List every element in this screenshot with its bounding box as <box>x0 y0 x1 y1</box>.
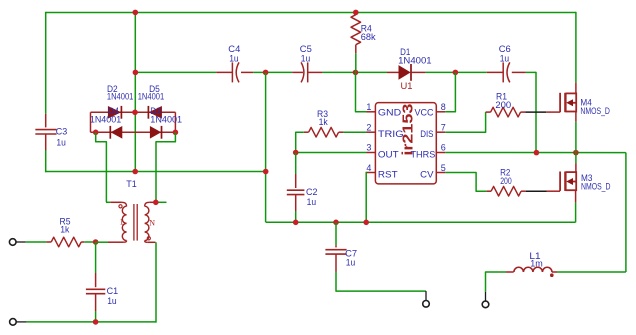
wire node down to C1 <box>95 242 97 273</box>
label pin number 4 <box>366 163 371 173</box>
wire pin1 GND branch <box>356 72 367 111</box>
resistor R5 lead right <box>81 241 84 243</box>
svg-text:RST: RST <box>378 169 398 180</box>
svg-text:GND: GND <box>378 108 401 119</box>
svg-text:1u: 1u <box>307 197 317 208</box>
wire pin8 VCC branch <box>445 72 455 111</box>
wire C7 node down <box>335 222 337 245</box>
label R5 value 1k <box>60 224 69 235</box>
wire pin7 DIS branch <box>445 112 485 132</box>
svg-text:T1: T1 <box>126 179 137 190</box>
svg-text:200: 200 <box>495 100 511 111</box>
label R1 <box>496 92 507 103</box>
terminal output left <box>423 301 430 308</box>
wire mid rail: C6 to corner <box>526 71 536 73</box>
pin 8 stub <box>436 111 445 113</box>
label pin number 2 <box>366 122 371 132</box>
label pin DIS <box>420 129 433 140</box>
svg-text:2: 2 <box>366 122 371 132</box>
svg-text:1: 1 <box>366 102 371 112</box>
node junction C1 / bottom rail <box>93 319 99 325</box>
pin 7 stub <box>436 131 445 133</box>
wire terminal to R5 <box>26 241 47 243</box>
wire top power rail <box>46 12 576 14</box>
wire node to T1 primary bottom <box>96 241 108 243</box>
label D3 <box>150 106 161 117</box>
svg-text:1k: 1k <box>60 224 69 235</box>
capacitor C2 lead bottom <box>295 194 297 211</box>
capacitor C4 lead left <box>216 71 232 73</box>
node junction bridge bottom left <box>93 130 99 136</box>
capacitor C2 <box>287 190 305 194</box>
capacitor C7 lead top <box>335 245 337 247</box>
transistor M4 gate pin black segment <box>525 111 546 113</box>
capacitor C5 <box>301 62 308 82</box>
wire mid-left horizontal net <box>45 171 266 173</box>
label R4 value 68k <box>361 32 376 43</box>
transformer T1 secondary bottom lead <box>147 241 155 243</box>
wire pin2 to R3 <box>343 131 366 133</box>
capacitor C3 lead bottom <box>45 134 47 150</box>
label R2 <box>500 167 510 178</box>
resistor R1 lead right <box>521 111 526 113</box>
transistor M4 <box>560 93 576 113</box>
wire lower rail <box>266 221 576 223</box>
svg-text:NMOS_D: NMOS_D <box>581 182 611 193</box>
terminal input top pin <box>16 241 26 243</box>
label ir2153 part number <box>399 104 416 156</box>
transformer T1 primary bottom lead <box>108 241 124 243</box>
resistor R1 <box>491 107 521 117</box>
wire vertical C4C5-junction to lower rail <box>265 72 267 222</box>
label C2 <box>306 187 318 198</box>
svg-text:1u: 1u <box>107 296 117 307</box>
label R2 value 200 <box>500 176 512 187</box>
capacitor C6 lead right <box>512 71 526 73</box>
resistor R3 lead left <box>304 131 309 133</box>
capacitor C6 lead left <box>487 71 503 73</box>
label C1 value 1u <box>107 296 117 307</box>
svg-text:1k: 1k <box>319 117 328 128</box>
label pin number 7 <box>441 122 446 132</box>
label C6 value 1u <box>500 53 510 64</box>
pin 3 stub <box>367 152 376 154</box>
capacitor C5 lead right <box>308 71 323 73</box>
svg-text:OUT: OUT <box>378 150 399 161</box>
label C4 <box>228 44 240 55</box>
node junction lower rail / C7 <box>333 220 339 226</box>
svg-text:1N4001: 1N4001 <box>150 114 182 125</box>
label R4 <box>361 23 372 34</box>
svg-text:U1: U1 <box>401 81 413 92</box>
pin 4 stub <box>367 172 376 174</box>
wire bridge left side <box>90 112 92 132</box>
wire mid rail: junction to C5 <box>266 71 293 73</box>
label pin number 3 <box>366 143 371 153</box>
op-amp U1 body (ir2153 box) <box>375 103 436 184</box>
inductor L1 <box>514 267 552 272</box>
wire bridge right output step <box>156 132 175 202</box>
label C4 value 1u <box>229 53 239 64</box>
transformer T1 core <box>134 204 137 241</box>
wire pin5 CV branch <box>445 173 486 192</box>
wire output drop to L1 <box>557 271 626 273</box>
capacitor C1 <box>86 289 105 293</box>
label pin CV <box>420 169 434 180</box>
svg-text:5: 5 <box>441 163 446 173</box>
diode D4 (bottom-left, pointing left) <box>110 126 122 139</box>
node junction output rail / half-bridge <box>573 150 579 156</box>
transistor M3 drain lead <box>575 153 577 173</box>
resistor R5 lead left <box>46 241 51 243</box>
svg-text:1: 1 <box>120 218 124 227</box>
transformer T1 secondary top lead <box>149 201 156 203</box>
svg-text:1N4001: 1N4001 <box>138 92 165 103</box>
label T1 <box>126 179 137 190</box>
label D2 <box>107 84 118 95</box>
resistor R1 lead left <box>486 111 491 113</box>
wire right drop to M4 drain <box>575 12 577 83</box>
resistor R4 lead bottom <box>355 45 357 53</box>
label L1 value 1m <box>530 259 543 270</box>
node junction mid-left net / C4C5 vertical <box>263 169 269 175</box>
label D2 value 1N4001 <box>107 92 133 103</box>
transistor M3 <box>560 171 576 191</box>
label D5 value 1N4001 <box>138 92 165 103</box>
transistor M3 source lead <box>575 190 577 202</box>
diode D1 lead right <box>411 71 425 73</box>
label R5 <box>60 216 71 227</box>
wire C1 to bottom rail <box>95 311 97 322</box>
svg-text:8: 8 <box>441 102 446 112</box>
terminal input top <box>9 239 16 246</box>
label R1 value 200 <box>495 100 511 111</box>
terminal input bottom <box>10 319 17 326</box>
svg-text:1u: 1u <box>56 137 66 148</box>
node junction lower rail / RST <box>363 220 369 226</box>
node junction D1 cathode / VCC branch <box>453 70 459 76</box>
inductor L1 lead left <box>506 271 514 273</box>
transistor M3 gate pin black segment <box>526 190 547 192</box>
wire R4 bottom to mid rail <box>355 53 357 72</box>
label M4 <box>580 97 591 108</box>
resistor R4 <box>351 15 361 45</box>
svg-text:1u: 1u <box>229 53 239 64</box>
wire bottom-left rail <box>27 321 156 323</box>
svg-text:NMOS_D: NMOS_D <box>580 106 610 117</box>
capacitor C5 lead left <box>292 71 303 73</box>
label D1 value 1N4001 <box>398 55 432 66</box>
terminal output left pin <box>425 291 427 300</box>
wire mid rail: D1 to VCC node <box>425 71 455 73</box>
wire mid rail: C5 to R4 node <box>322 71 355 73</box>
svg-text:1N4001: 1N4001 <box>398 55 432 66</box>
diode D1 lead left <box>387 71 399 73</box>
wire output rail right drop <box>625 153 627 272</box>
svg-text:1N4001: 1N4001 <box>90 114 121 125</box>
terminal output right <box>482 301 489 308</box>
inductor L1 lead right <box>552 271 557 273</box>
transformer T1 primary top lead <box>106 201 122 203</box>
label pin number 8 <box>441 102 446 112</box>
wire C6 corner down to output node <box>535 72 537 153</box>
node junction mid-left net / center vertical <box>132 169 138 175</box>
label L1 <box>529 251 540 262</box>
label pin RST <box>378 169 398 180</box>
wire R5 to node <box>84 241 95 243</box>
node junction bridge top center <box>132 110 138 116</box>
terminal output right pin <box>485 292 487 301</box>
capacitor C7 lead bottom <box>335 254 337 271</box>
svg-text:VCC: VCC <box>415 108 434 119</box>
wire pin6 THRS output rail <box>445 152 626 154</box>
capacitor C1 lead top <box>95 273 97 287</box>
svg-text:TRIG: TRIG <box>378 129 404 140</box>
label C2 value 1u <box>307 197 317 208</box>
label M4 type NMOS_D <box>580 106 610 117</box>
pin 2 stub <box>367 131 376 133</box>
wire C7 down and right <box>336 272 426 292</box>
label pin OUT <box>378 150 399 161</box>
node junction secondary top / bridge right step <box>153 200 159 206</box>
wire bridge bottom row <box>91 131 176 133</box>
transistor M4 gate lead <box>546 111 560 113</box>
svg-text:4: 4 <box>366 163 371 173</box>
capacitor C3 lead top <box>45 114 47 128</box>
label C5 value 1u <box>301 53 311 64</box>
node junction OUT / R3 / C2 <box>293 150 299 156</box>
wire OUT node down to C2 <box>295 153 297 175</box>
label T1 secondary N <box>149 219 155 228</box>
wire M4 source to output node <box>575 122 577 153</box>
label C3 value 1u <box>56 137 66 148</box>
label pin TRIG <box>378 129 404 140</box>
wire secondary bottom return vertical <box>155 242 157 322</box>
transistor M4 drain lead <box>575 83 577 94</box>
label C5 <box>300 44 312 55</box>
wire left rail below C3 <box>45 150 47 172</box>
label D4 value 1N4001 <box>90 114 121 125</box>
inductor L1 phase dot <box>550 273 554 277</box>
node junction mid rail / center vertical <box>133 70 139 76</box>
capacitor C4 <box>232 62 239 82</box>
capacitor C7 <box>325 250 346 254</box>
wire mid rail: R4 node to D1 <box>356 71 388 73</box>
transformer T1 secondary top pin stub <box>156 201 167 203</box>
label C7 value 1u <box>346 258 356 269</box>
label T1 primary 1 <box>120 218 124 227</box>
diode D2 (top-left, pointing right) <box>108 106 121 119</box>
node junction top rail / center vertical <box>133 10 139 16</box>
svg-text:1N4001: 1N4001 <box>107 92 133 103</box>
wire mid rail: C4 to junction <box>253 71 265 73</box>
transformer T1 secondary coil <box>145 202 150 242</box>
svg-text:THRS: THRS <box>411 150 436 161</box>
wire left rail vertical (to C3) <box>45 12 47 114</box>
capacitor C6 <box>503 62 510 82</box>
wire bridge right side <box>174 112 176 132</box>
resistor R2 lead right <box>521 190 526 192</box>
resistor R3 <box>309 127 339 137</box>
wire mid rail: VCC node to C6 <box>455 71 486 73</box>
svg-text:1u: 1u <box>346 258 356 269</box>
svg-text:68k: 68k <box>361 32 376 43</box>
svg-text:N: N <box>149 219 155 228</box>
label pin number 1 <box>366 102 371 112</box>
wire R3 left corner <box>296 132 304 152</box>
wire pin3 OUT <box>296 152 367 154</box>
transformer T1 secondary phase dot <box>147 237 150 240</box>
label pin number 6 <box>441 143 446 153</box>
resistor R3 lead right <box>339 131 344 133</box>
diode D1 <box>399 64 411 81</box>
pin 6 stub <box>436 152 445 154</box>
node junction bridge bottom right <box>173 130 179 136</box>
capacitor C4 lead right <box>241 71 253 73</box>
svg-text:1u: 1u <box>301 53 311 64</box>
node junction top rail / R4 <box>353 10 359 16</box>
label R3 value 1k <box>319 117 328 128</box>
resistor R2 <box>491 186 521 196</box>
svg-text:7: 7 <box>441 122 446 132</box>
pin 5 stub <box>436 172 445 174</box>
node junction C4/C5 <box>263 70 269 76</box>
terminal input bottom pin <box>16 321 26 323</box>
label D3 value 1N4001 <box>150 114 182 125</box>
svg-text:6: 6 <box>441 143 446 153</box>
transformer T1 primary phase dot <box>119 205 122 208</box>
label pin GND <box>378 108 401 119</box>
capacitor C1 lead bottom <box>95 294 97 312</box>
label M3 type NMOS_D <box>581 182 611 193</box>
diode D3 (bottom-right, pointing right) <box>150 126 161 139</box>
svg-text:CV: CV <box>420 169 434 180</box>
wire center vertical net <box>134 12 136 171</box>
label C1 <box>107 286 119 297</box>
label pin THRS <box>411 150 436 161</box>
label C6 <box>499 44 511 55</box>
svg-text:C3: C3 <box>56 126 68 137</box>
transistor M3 gate lead <box>547 190 561 192</box>
label pin number 5 <box>441 163 446 173</box>
diode D5 (top-right, pointing left) <box>148 106 161 119</box>
node junction lower rail / C2 <box>293 220 299 226</box>
wire C2 to lower rail <box>295 211 297 222</box>
wire bridge left output step <box>96 132 107 202</box>
resistor R2 lead left <box>487 190 492 192</box>
resistor R5 <box>51 237 81 247</box>
node junction output rail / C6 branch <box>534 150 540 156</box>
svg-text:DIS: DIS <box>420 129 433 140</box>
pin 1 stub <box>367 111 376 113</box>
label D4 <box>108 106 119 117</box>
capacitor C2 lead top <box>295 174 297 188</box>
node junction R4 bottom / pin1 branch <box>353 70 359 76</box>
wire mid rail: center to C4 <box>135 71 216 73</box>
wire L1 to output corner <box>486 272 507 292</box>
wire bridge top row <box>91 111 176 113</box>
label D1 <box>400 47 410 58</box>
label D5 <box>149 84 160 95</box>
label C7 <box>345 248 357 259</box>
svg-text:1m: 1m <box>530 259 543 270</box>
label C3 <box>56 126 68 137</box>
svg-text:3: 3 <box>366 143 371 153</box>
node junction R5 / C1 / T1 primary <box>93 239 99 245</box>
label M3 <box>581 173 592 184</box>
wire pin4 RST branch <box>365 172 367 223</box>
capacitor C3 <box>35 130 56 134</box>
svg-text:200: 200 <box>500 176 512 187</box>
label U1 <box>401 81 413 92</box>
label pin VCC <box>415 108 434 119</box>
svg-text:1u: 1u <box>500 53 510 64</box>
transformer T1 primary coil <box>122 202 127 242</box>
label R3 <box>317 109 328 120</box>
transistor M4 source lead <box>575 112 577 122</box>
wire M3 source to lower rail <box>575 202 577 222</box>
